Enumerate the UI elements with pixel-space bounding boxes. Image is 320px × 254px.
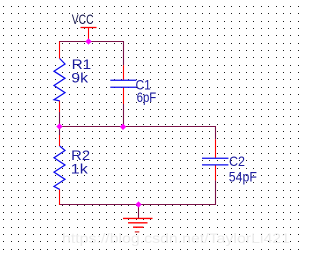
svg-text:9k: 9k [71, 71, 88, 86]
svg-text:1k: 1k [71, 161, 88, 176]
svg-text:54pF: 54pF [229, 170, 257, 185]
svg-text:VCC: VCC [72, 12, 94, 27]
svg-text:C2: C2 [229, 154, 245, 169]
svg-text:https://blog.csdn.net/TaylorLi: https://blog.csdn.net/TaylorLi421 [62, 231, 290, 246]
svg-text:6pF: 6pF [137, 90, 157, 105]
